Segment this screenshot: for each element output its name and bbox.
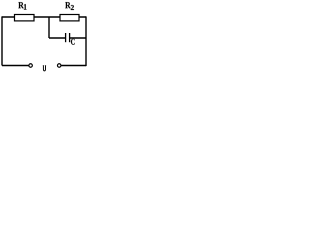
resistor R1	[15, 15, 35, 21]
wire top	[2, 16, 86, 18]
label U (source voltage)	[43, 66, 46, 71]
wire left vertical	[1, 16, 3, 65]
label R1 subscript "1"	[24, 4, 27, 10]
resistor R2	[60, 15, 79, 21]
wire bottom right	[61, 65, 86, 67]
wire capacitor left lead	[49, 37, 66, 39]
terminal right (input node)	[57, 64, 61, 68]
label R2 subscript "2"	[71, 5, 74, 10]
wire capacitor branch drop at node	[48, 17, 50, 38]
label R2 text "R"	[65, 2, 71, 8]
capacitor C plates	[66, 33, 70, 42]
wire bottom left	[2, 65, 29, 67]
terminal left (input node)	[29, 64, 32, 68]
label C (capacitor value label)	[71, 39, 75, 45]
label R1 text "R"	[18, 2, 24, 8]
wire right vertical	[85, 16, 87, 66]
wire capacitor right lead	[70, 37, 86, 39]
